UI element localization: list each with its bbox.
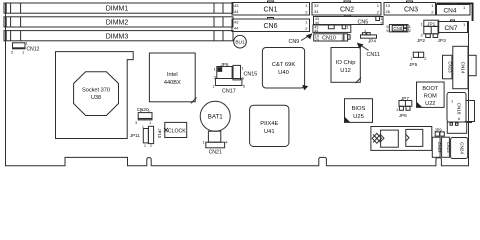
- svg-text:44: 44: [315, 21, 319, 25]
- svg-text:440BX: 440BX: [164, 80, 181, 86]
- svg-text:1: 1: [142, 125, 144, 129]
- svg-text:2: 2: [341, 38, 343, 42]
- svg-text:JP11: JP11: [130, 133, 141, 138]
- svg-text:CN11: CN11: [367, 52, 380, 58]
- svg-text:JP10: JP10: [157, 129, 162, 139]
- svg-text:CN7: CN7: [444, 25, 457, 32]
- svg-text:44: 44: [234, 26, 239, 31]
- svg-text:CN9: CN9: [289, 39, 300, 45]
- svg-text:1: 1: [214, 67, 216, 72]
- DIMM1 slot: [4, 3, 233, 13]
- svg-text:C&T 69K: C&T 69K: [272, 62, 296, 68]
- svg-text:1: 1: [149, 120, 151, 125]
- svg-text:20: 20: [315, 38, 319, 42]
- svg-text:ROM: ROM: [424, 94, 437, 100]
- svg-text:CN1: CN1: [263, 6, 277, 13]
- connector CN14: [453, 46, 476, 88]
- svg-text:CN3: CN3: [404, 6, 418, 13]
- connector CN5: [314, 15, 384, 25]
- jumper JP7: [396, 96, 412, 112]
- svg-text:JP3: JP3: [438, 38, 447, 44]
- connector CN10: [314, 34, 350, 42]
- connector CN15 (box): [233, 65, 244, 80]
- VGA chip U40 C&T 69K: [262, 48, 308, 91]
- svg-text:BAT1: BAT1: [208, 113, 224, 120]
- svg-text:1: 1: [148, 109, 150, 113]
- svg-text:IO Chip: IO Chip: [336, 60, 356, 66]
- jumper JP10: [142, 125, 162, 148]
- svg-text:U22: U22: [425, 101, 435, 107]
- svg-text:CN10: CN10: [322, 36, 336, 42]
- connector CN6: [232, 18, 310, 32]
- svg-text:5: 5: [243, 84, 245, 89]
- svg-text:1: 1: [203, 140, 205, 145]
- connector CN9 (box): [313, 25, 351, 33]
- svg-text:2: 2: [11, 50, 13, 55]
- jumper JP6: [214, 62, 232, 80]
- BIOS U25: [345, 99, 373, 123]
- svg-text:U38: U38: [91, 95, 101, 101]
- svg-text:JP8: JP8: [399, 113, 407, 118]
- svg-text:CN12: CN12: [27, 47, 40, 53]
- svg-text:U41: U41: [264, 129, 275, 135]
- svg-text:44: 44: [234, 9, 239, 14]
- svg-text:CN8: CN8: [393, 26, 402, 31]
- jumper JP4: [361, 28, 377, 44]
- svg-text:CN4: CN4: [443, 8, 456, 15]
- svg-text:CN17: CN17: [222, 89, 236, 95]
- connector CN18: [447, 93, 475, 123]
- jumper JP5: [409, 52, 426, 68]
- svg-text:1: 1: [242, 66, 244, 71]
- svg-text:44: 44: [314, 29, 318, 33]
- svg-text:U25: U25: [353, 114, 364, 120]
- connector CN4: [437, 3, 471, 15]
- svg-text:13: 13: [386, 3, 391, 8]
- connector below CN18: [447, 122, 472, 133]
- svg-text:JP4: JP4: [368, 38, 376, 43]
- CPU socket U38 (Socket 370): [56, 52, 134, 139]
- svg-text:BOOT: BOOT: [422, 86, 438, 92]
- battery BAT1: [200, 101, 230, 142]
- svg-text:CN13: CN13: [447, 61, 452, 73]
- connector CN8: [386, 24, 411, 33]
- connector CN2: [312, 1, 381, 15]
- svg-text:1: 1: [364, 28, 366, 33]
- svg-text:26: 26: [386, 9, 391, 14]
- jumper JP9: [435, 128, 445, 136]
- svg-text:2: 2: [150, 144, 152, 148]
- svg-text:1: 1: [451, 99, 453, 104]
- svg-text:33: 33: [314, 3, 319, 8]
- board outline: [6, 3, 469, 166]
- clock generator: [164, 122, 187, 137]
- connector CN23: [442, 137, 452, 157]
- svg-text:1: 1: [144, 144, 146, 148]
- svg-text:PIIX4E: PIIX4E: [260, 121, 278, 127]
- svg-text:JP5: JP5: [409, 62, 418, 68]
- svg-text:1: 1: [421, 22, 423, 27]
- svg-text:1: 1: [212, 84, 214, 89]
- svg-text:CN2: CN2: [340, 6, 354, 13]
- node CN9 label with arrow: [289, 33, 313, 45]
- svg-text:U40: U40: [278, 70, 289, 76]
- svg-text:CN15: CN15: [244, 72, 258, 78]
- connector CN24: [451, 138, 468, 159]
- svg-text:43: 43: [234, 20, 239, 25]
- svg-text:1: 1: [26, 41, 28, 46]
- connector CN12: [11, 41, 40, 55]
- svg-text:BU1: BU1: [235, 40, 245, 46]
- svg-text:CN18: CN18: [457, 103, 462, 115]
- DC-DC converter module: [371, 127, 432, 151]
- svg-text:2: 2: [421, 33, 423, 38]
- svg-text:2: 2: [380, 20, 382, 25]
- svg-text:CN6: CN6: [263, 23, 277, 30]
- svg-text:CN5: CN5: [358, 19, 369, 25]
- svg-text:CLOCK: CLOCK: [168, 129, 186, 135]
- svg-text:DIMM3: DIMM3: [106, 33, 129, 40]
- connector CN20: [135, 107, 152, 125]
- svg-text:CN24: CN24: [460, 142, 465, 154]
- svg-text:Intel: Intel: [167, 72, 178, 78]
- svg-text:1: 1: [396, 107, 398, 112]
- svg-text:5: 5: [386, 28, 388, 33]
- svg-text:DIMM2: DIMM2: [106, 20, 129, 27]
- IO chip U12: [331, 48, 361, 84]
- buzzer BU1: [234, 35, 247, 48]
- connector CN22: [432, 137, 442, 157]
- connector CN1: [232, 1, 310, 15]
- svg-text:JP2: JP2: [417, 38, 426, 44]
- svg-text:1: 1: [347, 26, 349, 30]
- board top-right bracket edge (thick): [436, 3, 473, 22]
- svg-text:U12: U12: [340, 68, 351, 74]
- connector CN13: [443, 55, 453, 79]
- jumper JP1: [421, 20, 439, 37]
- DIMM2 slot: [4, 17, 233, 27]
- connector CN3: [384, 1, 436, 15]
- south bridge U41 PIIX4E: [250, 105, 289, 146]
- svg-text:6: 6: [458, 116, 460, 121]
- svg-text:3: 3: [135, 120, 137, 125]
- svg-text:BIOS: BIOS: [352, 106, 366, 112]
- jumper JP11: [130, 129, 149, 143]
- svg-text:1: 1: [410, 56, 412, 61]
- svg-text:CN14: CN14: [461, 62, 466, 74]
- connector CN17: [212, 79, 245, 95]
- svg-text:CN21: CN21: [209, 149, 222, 155]
- DIMM3 slot: [4, 31, 233, 41]
- connector CN21: [203, 140, 229, 156]
- connector CN7: [438, 20, 468, 33]
- svg-text:DIMM1: DIMM1: [106, 6, 129, 13]
- svg-text:2: 2: [409, 28, 411, 33]
- svg-text:43: 43: [234, 3, 239, 8]
- svg-text:34: 34: [314, 9, 319, 14]
- svg-text:1: 1: [22, 50, 24, 55]
- node CN11 label with arrow: [357, 43, 380, 58]
- chipset U39 Intel 440BX: [149, 53, 196, 103]
- svg-text:CN22: CN22: [437, 142, 442, 153]
- svg-text:2: 2: [424, 56, 426, 61]
- svg-text:2: 2: [140, 109, 142, 113]
- boot ROM U22: [417, 82, 445, 107]
- svg-text:Socket 370: Socket 370: [82, 88, 110, 94]
